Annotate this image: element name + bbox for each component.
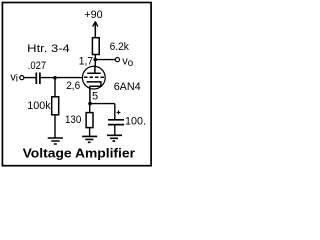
node plate junction [94, 58, 98, 62]
wire capacitor to grid [41, 77, 83, 79]
svg-text:.027: .027 [28, 60, 46, 72]
svg-text:2,6: 2,6 [66, 80, 80, 92]
triode cathode [87, 82, 101, 104]
wire bypass cap to ground [114, 125, 116, 135]
ground under bypass capacitor [107, 135, 122, 141]
resistor 6.2k [92, 38, 129, 55]
wire down to 130 [89, 104, 91, 113]
ground under 100k [48, 138, 63, 144]
ground under 130 [82, 136, 97, 142]
svg-text:130: 130 [65, 114, 81, 126]
svg-text:Voltage Amplifier: Voltage Amplifier [23, 147, 136, 161]
wire plate lead [94, 55, 96, 67]
svg-text:100.: 100. [125, 115, 146, 127]
polarity + of bypass capacitor [117, 111, 121, 115]
resistor 130 [65, 113, 93, 128]
node vo output terminal [115, 55, 133, 69]
svg-text:5: 5 [92, 91, 98, 103]
svg-text:Htr. 3-4: Htr. 3-4 [27, 43, 70, 55]
triode plate [87, 66, 101, 73]
capacitor 100uF [108, 115, 146, 127]
triode grid (dashed) [84, 76, 104, 78]
wire cathode junction to bypass cap [90, 103, 115, 105]
svg-text:100k: 100k [27, 100, 51, 112]
node grid junction [53, 76, 57, 80]
svg-text:i: i [16, 74, 18, 85]
resistor 100k [27, 97, 58, 115]
wire input to capacitor [24, 77, 36, 79]
power +90 [84, 9, 102, 38]
svg-text:+90: +90 [84, 9, 102, 21]
svg-text:6.2k: 6.2k [110, 41, 130, 53]
svg-text:1,7: 1,7 [79, 56, 93, 68]
svg-text:o: o [128, 58, 134, 69]
node cathode junction [88, 102, 92, 106]
triode U1 6AN4 envelope [82, 66, 105, 89]
wire down to bypass capacitor [114, 104, 116, 119]
wire junction down to 100k [54, 78, 56, 97]
wire 100k to ground [54, 115, 56, 138]
wire to output [95, 59, 115, 61]
wire 130 to ground [89, 128, 91, 136]
capacitor .027 [28, 60, 46, 84]
svg-text:6AN4: 6AN4 [114, 81, 141, 93]
node vi input terminal [10, 71, 23, 84]
